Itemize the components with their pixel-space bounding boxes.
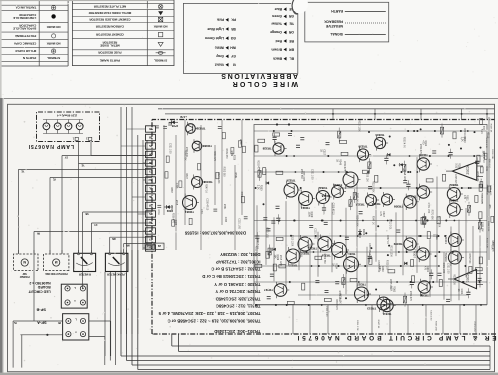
power sw lamp box [14, 254, 39, 271]
svg-text:Red: Red [276, 39, 282, 43]
svg-text:YE: YE [289, 22, 294, 26]
wire sp-a right lower [89, 336, 105, 338]
transistor TR322 [316, 191, 329, 204]
svg-text:0.01: 0.01 [488, 164, 490, 169]
protection lamp box [44, 254, 69, 271]
svg-text:SB: SB [149, 135, 153, 137]
svg-text:TR334: TR334 [375, 133, 384, 137]
svg-text:0.01: 0.01 [455, 163, 458, 168]
svg-text:CERAMIC CAPA: CERAMIC CAPA [13, 42, 36, 46]
svg-text:YE: YE [21, 169, 25, 171]
svg-text:TR330 : 2SA561 O or Y: TR330 : 2SA561 O or Y [214, 282, 260, 287]
wire column v3 [137, 135, 139, 334]
svg-text:FEEDBACK: FEEDBACK [324, 20, 343, 24]
svg-text:C305 47/10: C305 47/10 [454, 174, 456, 187]
svg-text:SW: SW [22, 272, 27, 276]
wire fan W8 [110, 236, 152, 238]
svg-text:C305 47/10: C305 47/10 [482, 151, 484, 164]
svg-text:C311: C311 [157, 210, 159, 216]
svg-text:C321 1/50: C321 1/50 [473, 322, 475, 333]
transistor TR332 [186, 124, 196, 134]
board edge connector pins [146, 245, 156, 251]
wire left vertical 1 [12, 321, 14, 368]
svg-text:Green: Green [272, 14, 282, 18]
transistor TR317 [344, 257, 359, 272]
svg-text:CEMENT MOLDED RESISTOR: CEMENT MOLDED RESISTOR [88, 17, 130, 21]
svg-text:METAL OXIDE FILM RESISTOR: METAL OXIDE FILM RESISTOR [88, 11, 131, 15]
resistor table rows [156, 52, 166, 54]
transistor TR301 [448, 234, 461, 247]
transistor TR336 [357, 149, 368, 160]
svg-text:R METER: R METER [79, 273, 91, 277]
svg-text:TR309: TR309 [393, 242, 402, 246]
svg-text:Light Blue: Light Blue [207, 27, 224, 31]
protection lamp [53, 259, 60, 266]
svg-text:(12V 60mA) x 4: (12V 60mA) x 4 [57, 114, 77, 118]
svg-text:RE: RE [289, 39, 294, 43]
wire fan W1 [62, 155, 152, 157]
svg-text:ABBREVIATIONS: ABBREVIATIONS [220, 72, 298, 79]
wire color box [183, 3, 297, 73]
svg-text:R324 100K: R324 100K [463, 128, 465, 140]
svg-text:White: White [215, 46, 224, 50]
svg-text:Brown: Brown [271, 47, 282, 51]
svg-text:TR325: TR325 [288, 264, 297, 268]
top edge line [0, 0, 150, 1]
transistor TR305 [418, 281, 430, 293]
svg-text:YE: YE [13, 321, 17, 323]
resistor parts table grid [72, 0, 174, 66]
op-amp IC302 [452, 162, 477, 180]
svg-text:15K: 15K [273, 254, 276, 259]
svg-text:TR301~304: 2SC1345D: TR301~304: 2SC1345D [214, 329, 260, 334]
svg-text:GY: GY [94, 223, 98, 225]
svg-text:R315 120K: R315 120K [481, 193, 483, 204]
svg-text:R309 470: R309 470 [419, 144, 421, 155]
svg-text:YE: YE [149, 144, 153, 146]
svg-text:470: 470 [423, 266, 426, 271]
transistor TR327 [274, 284, 287, 297]
svg-text:Orange: Orange [270, 30, 282, 34]
svg-text:Yellow: Yellow [271, 22, 282, 26]
wire column v1 [146, 140, 148, 250]
svg-text:R335 15K: R335 15K [476, 171, 478, 182]
svg-text:OR: OR [288, 30, 294, 34]
svg-text:NO MARK: NO MARK [153, 24, 168, 28]
wire sp-a right [89, 320, 111, 322]
svg-text:CAPACITOR: CAPACITOR [18, 13, 36, 17]
svg-text:M: M [55, 260, 58, 264]
transistor TR313 [377, 297, 390, 310]
svg-text:SP-B: SP-B [36, 308, 46, 313]
svg-text:Black: Black [273, 57, 282, 61]
transistor TR318 [332, 186, 344, 198]
svg-text:R311 2.2K: R311 2.2K [453, 274, 455, 285]
wire column v5 [126, 275, 128, 334]
lamp pin 1 [75, 137, 78, 140]
svg-text:1K: 1K [320, 149, 323, 152]
bus wire L6 [138, 369, 490, 371]
svg-text:MYLAR CAPAC: MYLAR CAPAC [14, 49, 36, 53]
svg-text:R347 1K: R347 1K [490, 124, 492, 133]
svg-text:TR307: TR307 [412, 249, 416, 258]
svg-text:YE: YE [81, 163, 85, 165]
box-to-outline verticals [475, 305, 477, 334]
bus wire L5 [132, 364, 490, 366]
svg-text:D303,304,305,307,308 : IS1555: D303,304,305,307,308 : IS1555 [184, 231, 246, 236]
svg-text:R371 68K: R371 68K [302, 171, 304, 182]
svg-text:POLYSTYRENE: POLYSTYRENE [15, 34, 36, 38]
svg-text:OR: OR [148, 152, 152, 154]
schematic frame [8, 104, 495, 371]
svg-text:TR336: TR336 [358, 144, 367, 148]
svg-text:R347 1K: R347 1K [386, 235, 388, 244]
svg-text:R309 470: R309 470 [213, 151, 215, 162]
svg-text:C321 1/50: C321 1/50 [310, 169, 312, 180]
svg-text:CAPACITOR: CAPACITOR [18, 24, 36, 28]
svg-text:R347 1K: R347 1K [377, 320, 379, 329]
svg-text:Gray: Gray [216, 54, 224, 58]
circuit rails [254, 130, 487, 132]
svg-text:TR327,328: 2SC1345D: TR327,328: 2SC1345D [216, 296, 261, 301]
transistor TR304 [447, 203, 460, 216]
transistor TR314 [382, 194, 393, 205]
svg-text:R347 1K: R347 1K [372, 216, 374, 225]
svg-text:TR307, 308,315 ~ 318 , 323 ~32: TR307, 308,315 ~ 318 , 323 ~326: 2SA763W… [158, 311, 261, 316]
svg-text:TR306: TR306 [418, 153, 427, 157]
svg-text:TR331 : 2SC1061S Be C or D: TR331 : 2SC1061S Be C or D [202, 274, 260, 279]
svg-text:NEGATIVE: NEGATIVE [325, 24, 343, 28]
svg-text:TR328: TR328 [262, 146, 271, 150]
svg-text:PARTS N: PARTS N [22, 56, 36, 60]
svg-text:C321 1/50: C321 1/50 [266, 227, 268, 238]
svg-text:WH: WH [230, 46, 236, 50]
svg-text:1K: 1K [332, 263, 335, 266]
svg-text:R339: R339 [170, 205, 172, 211]
transistor TR328 [273, 143, 284, 154]
svg-text:TR322: TR322 [318, 186, 327, 190]
transistor TR325 [286, 249, 300, 263]
bus vertical a [104, 272, 106, 356]
svg-text:R335 15K: R335 15K [481, 222, 483, 232]
svg-text:Light Green: Light Green [205, 36, 224, 40]
wire fan W6 [91, 222, 152, 224]
svg-text:SB: SB [231, 27, 236, 31]
svg-text:R315 120K: R315 120K [437, 216, 439, 228]
sub-circuit box [254, 125, 487, 305]
svg-text:R315 120K: R315 120K [291, 235, 293, 247]
transistor TR333 [192, 177, 203, 188]
svg-text:2.2K: 2.2K [460, 137, 463, 142]
transistor TR302 [447, 188, 460, 201]
svg-text:0.01: 0.01 [485, 166, 487, 171]
svg-text:4.7K: 4.7K [379, 211, 382, 216]
svg-text:R352 560: R352 560 [323, 254, 325, 265]
svg-text:GR: GR [288, 14, 294, 18]
svg-text:R309 470: R309 470 [343, 161, 345, 172]
svg-text:R315 120K: R315 120K [358, 120, 360, 132]
svg-text:R347 1K: R347 1K [205, 184, 207, 193]
svg-text:R335 15K: R335 15K [435, 321, 437, 331]
svg-text:NO MARK: NO MARK [46, 25, 61, 29]
speaker terminal block SP-A [63, 314, 89, 340]
svg-text:R311 2.2K: R311 2.2K [486, 238, 488, 249]
svg-text:C321 1/50: C321 1/50 [325, 306, 327, 317]
speaker terminal block SP-B [61, 284, 87, 308]
svg-text:D306: D306 [171, 124, 178, 128]
bus vertical c [115, 272, 117, 365]
svg-text:R318: R318 [185, 173, 187, 179]
svg-text:TR316: TR316 [333, 183, 342, 187]
svg-text:R360 33K: R360 33K [183, 150, 185, 161]
svg-text:TR305: TR305 [419, 294, 428, 298]
wire lamp 2 [90, 142, 92, 156]
wire fan W3 [18, 169, 152, 171]
transistor TR316 [343, 172, 358, 187]
svg-text:NO MARK: NO MARK [46, 42, 61, 46]
wire fan W2 [79, 163, 153, 165]
svg-text:TR308: TR308 [394, 205, 403, 209]
svg-text:R360 33K: R360 33K [491, 242, 493, 252]
svg-text:SB: SB [149, 229, 153, 231]
svg-text:BE: BE [148, 195, 152, 197]
svg-text:C305 47/10: C305 47/10 [377, 260, 379, 273]
svg-text:TR331: TR331 [185, 210, 194, 214]
svg-text:R324 100K: R324 100K [355, 215, 357, 227]
legend box signal-earth [305, 2, 389, 42]
op-amp IC301 [454, 269, 476, 288]
transistor TR307 [417, 248, 429, 260]
svg-text:TR318: TR318 [321, 194, 330, 198]
svg-text:R311 2.2K: R311 2.2K [356, 320, 358, 331]
bus wire L2 [179, 351, 490, 353]
diode D302 [164, 206, 173, 208]
svg-text:R303 4.7K: R303 4.7K [335, 299, 337, 310]
negative feedback dotted sample [345, 22, 386, 24]
transistor TR310 [417, 186, 429, 198]
small component texture [271, 222, 275, 224]
bus wire L4 [127, 360, 491, 362]
svg-text:R339: R339 [232, 155, 234, 161]
wire column v2 [142, 140, 144, 250]
svg-text:R303 4.7K: R303 4.7K [403, 137, 405, 148]
svg-text:GY: GY [230, 54, 236, 58]
svg-text:SYMBOL: SYMBOL [47, 56, 60, 60]
transistor TR309 [404, 238, 416, 250]
svg-text:M: M [23, 260, 26, 264]
svg-text:TR329: 2SC734 O or Y: TR329: 2SC734 O or Y [215, 289, 260, 294]
svg-text:GY: GY [64, 155, 68, 157]
board outline dash top [152, 119, 495, 121]
svg-text:R315 120K: R315 120K [390, 245, 392, 257]
svg-text:TR313: TR313 [367, 306, 376, 310]
svg-text:YE: YE [149, 212, 153, 214]
wire fan W7 [34, 231, 152, 233]
scan speckle [123, 247, 125, 249]
wire fan W4 [50, 177, 152, 179]
svg-text:PK: PK [231, 18, 236, 22]
svg-text:SB: SB [85, 212, 89, 214]
peak meter L needle [113, 257, 120, 264]
meter lamp pin stubs [123, 250, 125, 253]
svg-text:R339: R339 [239, 139, 241, 145]
svg-text:C312 0.01: C312 0.01 [389, 219, 391, 230]
svg-text:TR324: TR324 [301, 206, 310, 210]
wire top bus B [165, 113, 495, 115]
svg-text:R303 4.7K: R303 4.7K [485, 138, 487, 149]
svg-text:R360 33K: R360 33K [491, 149, 493, 159]
svg-text:IC302: IC302 [466, 166, 470, 175]
svg-text:TR326: TR326 [286, 178, 295, 182]
connector pins LM [155, 243, 164, 249]
scan curl artifact [291, 0, 308, 14]
board outline dash right [151, 120, 153, 335]
pin connection stubs [143, 247, 146, 249]
svg-text:PK: PK [36, 231, 40, 233]
svg-text:R309 470: R309 470 [409, 291, 411, 302]
transistor TR303 [448, 251, 461, 264]
peak meter L box [105, 253, 128, 271]
wire column v8 [120, 107, 122, 250]
svg-text:C321 1/50: C321 1/50 [489, 185, 491, 196]
board outline dash bottom [152, 333, 496, 335]
svg-text:C321 1/50: C321 1/50 [447, 263, 449, 274]
svg-text:1K: 1K [457, 289, 460, 292]
svg-text:MET. PLATE RESISTOR: MET. PLATE RESISTOR [93, 5, 126, 9]
transistor TR331 [183, 196, 197, 210]
svg-text:PK: PK [57, 321, 61, 323]
svg-text:2.2K: 2.2K [257, 185, 260, 190]
bus wire L3 [121, 355, 490, 357]
transistor TR312 [366, 195, 377, 206]
svg-text:WH: WH [147, 244, 151, 246]
svg-text:R303 4.7K: R303 4.7K [256, 160, 258, 171]
svg-text:TR303: TR303 [444, 253, 448, 262]
page divider line [0, 98, 498, 100]
capacitor table rows [51, 49, 55, 53]
svg-text:C321 1/50: C321 1/50 [429, 310, 431, 321]
svg-text:TR319: TR319 [321, 254, 330, 258]
capacitor parts table grid [67, 0, 69, 66]
svg-text:TR330: TR330 [203, 144, 212, 148]
svg-text:R335 15K: R335 15K [386, 260, 388, 271]
svg-text:GY: GY [148, 237, 152, 239]
svg-text:SYMBOL: SYMBOL [154, 58, 167, 62]
svg-text:PROTECTION IND.: PROTECTION IND. [44, 272, 67, 276]
svg-text:R315 120K: R315 120K [217, 172, 219, 184]
svg-text:GG: GG [230, 36, 236, 40]
svg-text:GR: GR [148, 203, 152, 205]
bus wire L1 [172, 345, 490, 347]
svg-text:C305 47/10: C305 47/10 [332, 203, 334, 216]
svg-text:33K: 33K [482, 126, 484, 131]
wire left vertical 2 [21, 335, 23, 368]
svg-text:Pink: Pink [217, 18, 224, 22]
diode D306 [169, 121, 178, 123]
transistor TR323 [298, 237, 312, 251]
svg-text:1K: 1K [336, 159, 339, 162]
wire fan W5 [83, 211, 152, 213]
svg-text:R315 120K: R315 120K [371, 181, 373, 193]
svg-text:TR305, 306,309,310, 319 ~ 322: TR305, 306,309,310, 319 ~ 322 : 2SC458B … [167, 319, 260, 324]
svg-text:470: 470 [463, 195, 466, 200]
svg-text:RESISTOR: RESISTOR [102, 41, 118, 45]
svg-text:FUSE RESISTOR: FUSE RESISTOR [97, 51, 121, 55]
svg-text:CEMENT RESISTOR: CEMENT RESISTOR [95, 32, 124, 36]
svg-text:R360 33K: R360 33K [479, 179, 481, 189]
svg-text:TR321: TR321 [308, 247, 317, 251]
svg-text:R371 68K: R371 68K [431, 210, 433, 221]
svg-text:L PEAK METER: L PEAK METER [107, 273, 127, 277]
svg-text:PARTS NAME: PARTS NAME [100, 58, 120, 62]
svg-text:LAMP NA0675I: LAMP NA0675I [28, 143, 74, 149]
svg-text:C321 1/50: C321 1/50 [442, 263, 444, 274]
power sw lamp [21, 259, 28, 266]
svg-text:+47B: +47B [180, 115, 187, 119]
svg-text:SIGNAL: SIGNAL [330, 32, 343, 36]
svg-text:TANTALUM CA: TANTALUM CA [15, 6, 37, 10]
svg-text:D303: D303 [362, 229, 366, 236]
svg-text:IC301,302 : TA7129AP: IC301,302 : TA7129AP [216, 259, 261, 264]
svg-text:R309 470: R309 470 [225, 148, 227, 159]
lamp pin 2 [89, 137, 92, 140]
wire top bus A [158, 108, 495, 110]
svg-text:TR311, 312 : 2SC458C: TR311, 312 : 2SC458C [216, 303, 261, 308]
svg-text:R341: R341 [223, 204, 225, 210]
wire sp-a left [13, 320, 63, 322]
diode D303 [359, 229, 361, 238]
svg-text:Blue: Blue [275, 7, 282, 11]
svg-text:YE: YE [52, 177, 56, 179]
svg-text:C321 1/50: C321 1/50 [314, 228, 316, 239]
wire lamp 1 [78, 142, 80, 164]
svg-text:1K: 1K [432, 234, 435, 237]
transistor TR315 [355, 287, 369, 301]
lamps 12V 60mA x4 [43, 123, 50, 130]
lamp rail [43, 133, 83, 135]
transistor TR326 [284, 183, 298, 197]
svg-text:R335 15K: R335 15K [366, 172, 368, 183]
bus terminator [489, 346, 491, 370]
svg-text:R366 5.1K: R366 5.1K [486, 185, 488, 196]
svg-text:Violet: Violet [214, 63, 224, 67]
wire column v6 [126, 107, 128, 250]
signal line sample [345, 34, 386, 36]
svg-text:C321 1/50: C321 1/50 [237, 218, 239, 229]
svg-text:TR315: TR315 [357, 282, 366, 286]
lamp block NA0675I box [37, 112, 100, 142]
bus vertical b [109, 272, 111, 361]
sub-box junction dots [276, 123, 278, 125]
wire sp-a left lower [20, 334, 62, 336]
page bottom edge band [0, 373, 498, 375]
svg-text:C321 1/50: C321 1/50 [427, 203, 429, 214]
transistor TR330 [192, 141, 202, 151]
wire column v4 [131, 107, 133, 334]
svg-text:LM: LM [158, 244, 161, 246]
transistor TR311 [381, 299, 393, 311]
svg-text:BL: BL [289, 57, 294, 61]
page left edge band [0, 98, 3, 375]
wire junction dots [429, 155, 431, 157]
svg-text:R315 120K: R315 120K [279, 255, 281, 267]
transistor TR334 [374, 137, 385, 148]
svg-text:C323: C323 [224, 217, 226, 223]
svg-text:R352 560: R352 560 [300, 169, 302, 180]
transistor TR319 [332, 243, 347, 258]
wire fan W9 [124, 243, 152, 245]
earth line sample [345, 11, 386, 13]
